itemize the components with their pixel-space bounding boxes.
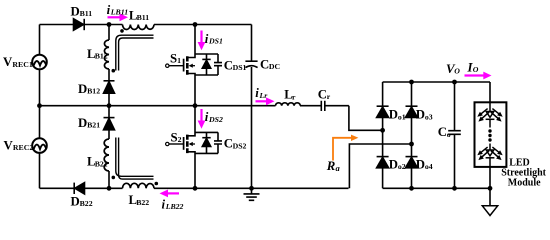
svg-text:DS2: DS2 — [208, 115, 223, 124]
LED D1 — [480, 109, 501, 120]
diode DB11 — [74, 19, 84, 30]
svg-text:D: D — [78, 82, 87, 96]
node middle-left — [37, 103, 42, 108]
capacitor Co — [448, 131, 461, 135]
svg-text:O: O — [473, 65, 479, 74]
inductor Lr — [276, 103, 301, 106]
ground under CDC — [244, 194, 260, 200]
svg-text:a: a — [336, 163, 341, 173]
svg-text:DS2: DS2 — [233, 141, 247, 150]
diode DB12 — [104, 80, 115, 82]
node top S1 drain junction — [193, 22, 198, 27]
svg-text:D: D — [71, 4, 80, 18]
ground under LED module — [489, 188, 491, 206]
svg-text:R: R — [326, 159, 336, 173]
inductor LB12 — [104, 40, 109, 69]
svg-text:r: r — [292, 92, 296, 101]
svg-text:DS1: DS1 — [208, 37, 223, 46]
polarity dot LB22 — [155, 182, 159, 186]
svg-text:o: o — [447, 130, 451, 139]
svg-text:D: D — [416, 157, 425, 171]
svg-text:C: C — [438, 125, 447, 139]
svg-text:C: C — [224, 58, 233, 72]
svg-text:B11: B11 — [80, 9, 93, 18]
svg-text:D: D — [78, 116, 87, 130]
svg-text:o4: o4 — [425, 162, 433, 171]
svg-text:S: S — [170, 51, 177, 65]
core of LB11/LB12 — [116, 35, 154, 70]
LED dots — [488, 129, 491, 132]
arrow iLB11 — [108, 13, 492, 197]
core of LB21/LB22 — [116, 138, 154, 177]
svg-text:2: 2 — [178, 135, 182, 144]
arrow iDS1 — [200, 31, 202, 44]
arrow iLr — [256, 100, 268, 102]
wire CDC rail x=251.5 — [251, 25, 253, 189]
node bridge left midpoint — [380, 128, 385, 133]
svg-text:REC2: REC2 — [13, 143, 33, 152]
svg-text:C: C — [318, 88, 327, 102]
node top-left junction — [107, 22, 112, 27]
capacitor CDS1 — [214, 63, 222, 66]
node bottom ground junction — [249, 186, 254, 191]
svg-text:D: D — [71, 194, 80, 208]
wire elbow to bridge left mid — [349, 106, 383, 131]
capacitor Cr — [321, 101, 325, 111]
svg-text:r: r — [327, 92, 331, 101]
node bottom rail / Do4 anode — [409, 186, 414, 191]
svg-text:o3: o3 — [425, 112, 433, 121]
node S1/S2 midpoint — [193, 103, 198, 108]
node middle DB12/DB21 — [107, 103, 112, 108]
source VREC1 — [32, 55, 47, 70]
svg-text:DS1: DS1 — [233, 63, 247, 72]
svg-text:B12: B12 — [87, 87, 100, 96]
svg-text:B22: B22 — [136, 198, 149, 207]
wire bridge left rail — [382, 82, 384, 188]
wire elbow from bottom to bridge right mid — [349, 144, 411, 188]
svg-text:C: C — [260, 58, 269, 72]
wire top rail y=24.5 from left rail to C_DC rail — [40, 24, 252, 26]
diode DB22 — [75, 183, 85, 194]
mosfet S1 — [166, 25, 195, 106]
svg-text:o2: o2 — [398, 162, 406, 171]
LED module box — [475, 102, 507, 167]
node bottom rail / LED return — [488, 186, 493, 191]
body diode S2 — [202, 137, 210, 139]
arrow Ra (orange) — [333, 135, 358, 161]
svg-text:1: 1 — [177, 56, 181, 65]
diode Do2 — [377, 156, 389, 158]
svg-text:B21: B21 — [95, 159, 108, 168]
wire output top rail y=82 — [383, 81, 490, 83]
svg-text:B11: B11 — [137, 13, 150, 22]
diode Do4 — [406, 156, 418, 158]
wire inside LED box — [489, 102, 491, 167]
wire middle rail y=105.7 — [40, 105, 349, 107]
wire Co rail — [454, 82, 456, 188]
svg-text:Lr: Lr — [259, 91, 269, 100]
wire bridge right rail — [411, 82, 413, 188]
S1 cell bars — [195, 54, 218, 75]
wire LED rail — [489, 82, 491, 188]
svg-text:D: D — [389, 157, 398, 171]
diode Do3 — [406, 105, 418, 107]
source VREC2 — [32, 138, 47, 153]
body diode S1 — [202, 58, 210, 60]
node bottom LB21 junction — [107, 186, 112, 191]
node bottom S2 source junction — [193, 186, 198, 191]
svg-text:LB22: LB22 — [165, 202, 184, 211]
S2 cell bars — [195, 132, 218, 153]
wire LB12 branch — [108, 25, 110, 106]
LED D2 — [480, 147, 501, 158]
diode Do1 — [377, 105, 389, 107]
svg-text:O: O — [454, 67, 460, 76]
svg-text:C: C — [224, 137, 233, 151]
svg-text:D: D — [389, 108, 398, 122]
inductor LB11 — [123, 25, 155, 30]
polarity dot LB11 — [120, 29, 124, 33]
polarity dot LB12 — [112, 69, 116, 73]
arrow IO — [465, 74, 485, 76]
svg-text:B21: B21 — [87, 121, 100, 130]
capacitor CDC — [245, 60, 257, 62]
arrow iDS2 — [200, 109, 202, 122]
svg-text:DC: DC — [269, 62, 281, 71]
capacitor CDS2 — [214, 141, 222, 144]
node top rail / Co top — [452, 80, 457, 85]
svg-text:LB11: LB11 — [110, 8, 128, 17]
svg-text:o1: o1 — [398, 112, 406, 121]
svg-text:S: S — [171, 130, 178, 144]
node bottom rail / Co bottom — [452, 186, 457, 191]
mosfet S2 — [166, 106, 195, 189]
diode DB21 — [104, 117, 115, 119]
svg-text:B22: B22 — [80, 199, 93, 208]
svg-text:B12: B12 — [95, 52, 108, 61]
polarity dot LB21 — [112, 176, 116, 180]
wire bottom rail y=188.3 — [40, 187, 349, 189]
svg-text:Module: Module — [508, 177, 541, 188]
wire output bottom rail y=188.3 — [383, 187, 490, 189]
inductor LB22 — [123, 183, 155, 188]
node top rail / Do3 cathode — [409, 80, 414, 85]
inductor LB21 — [104, 139, 109, 171]
wire DB21/LB21 branch — [108, 106, 110, 189]
svg-text:REC1: REC1 — [12, 60, 32, 69]
node bridge right midpoint — [409, 142, 414, 147]
wire left rail x=39.5 — [39, 25, 41, 189]
arrow iLB22 — [167, 192, 179, 194]
svg-text:D: D — [416, 108, 425, 122]
